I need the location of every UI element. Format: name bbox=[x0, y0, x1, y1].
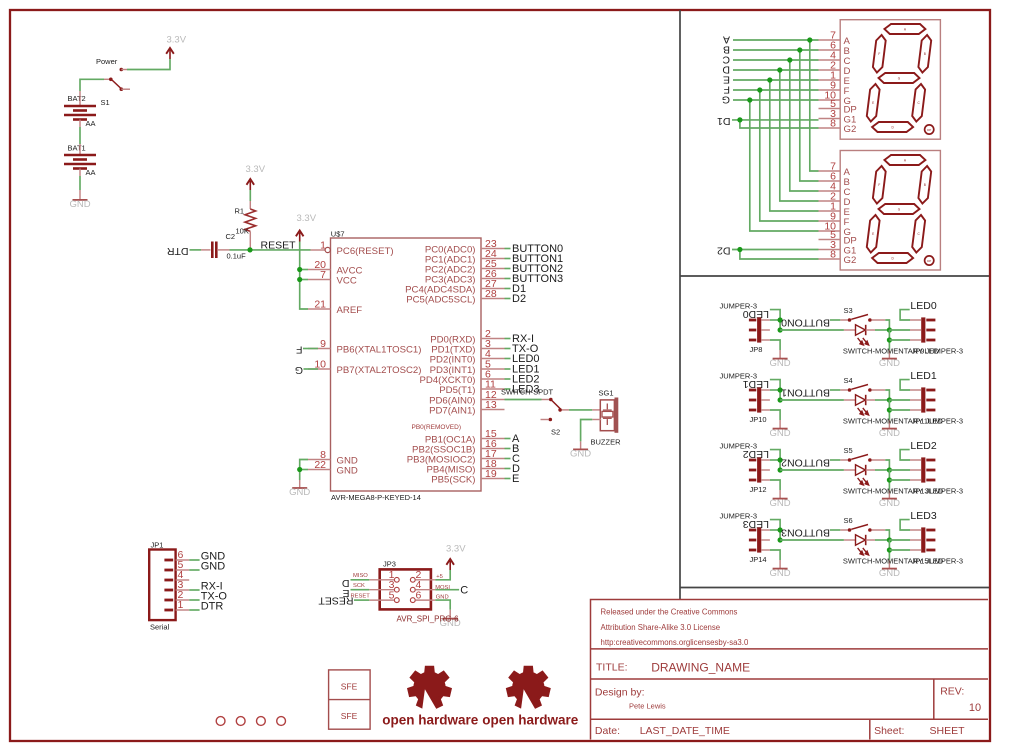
display D2 pin 1 E bbox=[819, 210, 841, 212]
svg-text:8: 8 bbox=[830, 249, 836, 261]
wire node to JP15 pin3 bbox=[889, 549, 910, 551]
svg-text:S6: S6 bbox=[844, 516, 853, 525]
svg-text:Released under the Creative Co: Released under the Creative Commons bbox=[601, 607, 738, 616]
svg-text:GND: GND bbox=[770, 428, 791, 439]
wire battery to switch bbox=[80, 79, 104, 91]
svg-text:GND: GND bbox=[201, 561, 226, 573]
fiducial circle 4 bbox=[277, 717, 286, 726]
wire net B to D1 bbox=[733, 49, 819, 51]
svg-text:B: B bbox=[924, 183, 926, 187]
junction JP10 pin2 bbox=[778, 397, 783, 402]
buzzer SG1 bbox=[600, 398, 616, 433]
display D1 pin 6 B bbox=[819, 49, 841, 51]
junction net F bbox=[757, 87, 762, 92]
wire net A branch to D2 bbox=[810, 40, 819, 171]
pin 12 PD6(AIN0) bbox=[481, 399, 505, 401]
svg-text:GND: GND bbox=[570, 449, 591, 460]
wire LED2 right to JP13 pin1 bbox=[900, 450, 910, 460]
svg-text:JUMPER-3: JUMPER-3 bbox=[926, 486, 964, 495]
wire E to JP3 pin3 bbox=[351, 589, 370, 591]
svg-text:DRAWING_NAME: DRAWING_NAME bbox=[651, 660, 750, 674]
wire node to JP13 pin2 bbox=[889, 469, 910, 471]
svg-text:GND: GND bbox=[879, 428, 900, 439]
svg-text:LED2: LED2 bbox=[743, 448, 769, 460]
wire switch to 3.3V bbox=[127, 59, 170, 70]
svg-text:E: E bbox=[872, 101, 874, 105]
svg-text:GND: GND bbox=[770, 498, 791, 509]
svg-text:13: 13 bbox=[485, 399, 497, 411]
pin 2 PD0(RXD) bbox=[481, 338, 505, 340]
ground symbol JP3 bbox=[443, 618, 458, 620]
svg-text:DP: DP bbox=[927, 259, 931, 263]
JP3 pin stubs right bbox=[415, 579, 435, 581]
junction JP12 pin1 bbox=[778, 457, 783, 462]
svg-text:S3: S3 bbox=[844, 306, 853, 315]
wire net F branch to D2 bbox=[760, 90, 819, 221]
connector JP1 pin 4 bbox=[164, 579, 173, 582]
svg-text:GND: GND bbox=[770, 568, 791, 579]
svg-text:SFE: SFE bbox=[341, 682, 358, 692]
svg-text:28: 28 bbox=[485, 288, 497, 300]
display D2 segment A bbox=[884, 155, 925, 165]
jumper JP15 bbox=[910, 527, 935, 552]
pin 4 PD2(INT0) bbox=[481, 358, 505, 360]
svg-text:G: G bbox=[295, 364, 303, 376]
svg-text:Attribution Share-Alike 3.0 Li: Attribution Share-Alike 3.0 License bbox=[601, 623, 721, 632]
wire S6 to LED cathode node bbox=[885, 530, 889, 540]
pin 16 PB2(SSOC1B) bbox=[481, 448, 505, 450]
supply symbol 3.3V arrow bbox=[166, 48, 174, 59]
ground symbol battery bbox=[73, 199, 88, 201]
junction node cathode 2 bbox=[887, 467, 892, 472]
display D1 decimal point bbox=[925, 125, 934, 134]
LED diode row 3 bbox=[844, 535, 875, 555]
wire LED0 net left bbox=[770, 310, 780, 330]
svg-text:BUZZER: BUZZER bbox=[591, 438, 622, 447]
pin 9 PB6(XTAL1TOSC1) bbox=[308, 348, 331, 350]
pin 22 GND bbox=[308, 469, 331, 471]
display D2 pin 7 A bbox=[819, 170, 841, 172]
connector JP3 pin 1 pad bbox=[394, 577, 399, 582]
svg-text:VCC: VCC bbox=[337, 275, 357, 286]
svg-text:AVR_SPI_PRG-6: AVR_SPI_PRG-6 bbox=[397, 615, 460, 624]
jumper JP9 bbox=[910, 317, 935, 342]
wire node to JP9 pin3 bbox=[889, 339, 910, 341]
display D2 pin 9 F bbox=[819, 220, 841, 222]
wire node to GND row 1 bbox=[888, 400, 890, 424]
svg-text:DP: DP bbox=[927, 128, 931, 132]
open hardware logo 2 gear bbox=[506, 666, 551, 711]
display D2 body bbox=[840, 151, 940, 271]
svg-text:LED0: LED0 bbox=[743, 308, 769, 320]
pin 18 PB4(MISO) bbox=[481, 468, 505, 470]
switch S5 bbox=[840, 455, 885, 462]
svg-text:GND: GND bbox=[879, 568, 900, 579]
supply symbol 3.3V arrow JP3 bbox=[446, 559, 454, 570]
pin 10 PB7(XTAL2TOSC2) bbox=[308, 368, 331, 370]
svg-text:JUMPER-3: JUMPER-3 bbox=[926, 346, 964, 355]
wire LED3 cathode to node bbox=[875, 539, 889, 541]
connector JP3 pin 6 pad bbox=[410, 598, 415, 603]
display D1 segment G bbox=[879, 73, 920, 83]
connector JP1 pin 1 bbox=[164, 609, 173, 612]
wire net D1 to G1 G2 bbox=[732, 119, 819, 121]
ground symbol JP8 bbox=[773, 358, 788, 360]
wire buzzer to GND bbox=[592, 419, 601, 421]
svg-text:Pete Lewis: Pete Lewis bbox=[629, 701, 666, 710]
pin 27 PC4(ADC4SDA) bbox=[481, 288, 505, 290]
wire BAT2 to BAT1 bbox=[79, 127, 81, 144]
svg-text:3.3V: 3.3V bbox=[297, 213, 317, 224]
jumper JP12 bbox=[749, 457, 770, 482]
wire S4 to LED cathode node bbox=[885, 390, 889, 400]
svg-text:B: B bbox=[924, 52, 926, 56]
wire net A to D1 bbox=[733, 39, 819, 41]
svg-text:E: E bbox=[872, 232, 874, 236]
wire net C branch to D2 bbox=[790, 60, 819, 191]
junction VCC bbox=[297, 277, 302, 282]
wire S5 left stub bbox=[830, 459, 840, 461]
junction node pin3 1 bbox=[887, 407, 892, 412]
battery BAT2 bbox=[64, 91, 96, 127]
wire trunk to AVCC bbox=[300, 269, 308, 271]
svg-text:BUTTON3: BUTTON3 bbox=[781, 526, 830, 538]
svg-text:SFE: SFE bbox=[341, 711, 358, 721]
switch S6 bbox=[840, 525, 885, 532]
svg-text:SG1: SG1 bbox=[599, 389, 614, 398]
wire LED1 net left bbox=[770, 380, 780, 400]
svg-text:GND: GND bbox=[879, 498, 900, 509]
pin 8 GND bbox=[308, 459, 331, 461]
svg-text:BAT1: BAT1 bbox=[68, 144, 86, 153]
wire JP1 pin 6 bbox=[189, 559, 199, 561]
wire net G to D1 bbox=[733, 99, 819, 101]
pin 11 PD5(T1) bbox=[481, 388, 505, 390]
svg-text:R1: R1 bbox=[235, 207, 245, 216]
display D1 pin 5 DP bbox=[819, 108, 841, 110]
wire DTR to C2 bbox=[190, 249, 202, 251]
wire S5 to LED cathode node bbox=[885, 460, 889, 470]
wire LED1 anode bbox=[780, 399, 844, 401]
wire LED0 cathode to node bbox=[875, 329, 889, 331]
svg-text:open hardware: open hardware bbox=[382, 713, 479, 728]
svg-text:PD2(INT0): PD2(INT0) bbox=[430, 354, 476, 365]
wire S3 to LED cathode node bbox=[885, 320, 889, 330]
svg-text:BUTTON1: BUTTON1 bbox=[781, 386, 830, 398]
svg-text:E: E bbox=[512, 473, 519, 485]
svg-text:3.3V: 3.3V bbox=[167, 35, 187, 46]
pin 13 PD7(AIN1) bbox=[481, 409, 505, 411]
svg-text:LED1: LED1 bbox=[910, 370, 936, 382]
pin 5 PD3(INT1) bbox=[481, 368, 505, 370]
wire LED2 anode bbox=[780, 469, 844, 471]
wire LED3 anode bbox=[780, 539, 844, 541]
svg-text:Sheet:: Sheet: bbox=[874, 725, 904, 737]
svg-text:BAT2: BAT2 bbox=[68, 94, 86, 103]
svg-text:GND: GND bbox=[289, 487, 310, 498]
wire JP10 pin3 to GND bbox=[770, 410, 780, 420]
ground symbol JP14 bbox=[773, 568, 788, 570]
svg-text:MISO: MISO bbox=[353, 573, 368, 579]
svg-text:AVR-MEGA8-P-KEYED-14: AVR-MEGA8-P-KEYED-14 bbox=[331, 493, 421, 502]
svg-text:PD7(AIN1): PD7(AIN1) bbox=[429, 405, 475, 416]
connector JP3 pin 4 pad bbox=[410, 587, 415, 592]
svg-text:REV:: REV: bbox=[940, 685, 964, 697]
pin 24 PC1(ADC1) bbox=[481, 258, 505, 260]
display D1 pin 7 A bbox=[819, 39, 841, 41]
svg-text:GND: GND bbox=[69, 199, 90, 210]
svg-text:LED0: LED0 bbox=[910, 300, 936, 312]
svg-text:D2: D2 bbox=[717, 245, 731, 257]
display D2 pin 8 G2 bbox=[819, 258, 841, 260]
wire net B branch to D2 bbox=[800, 50, 819, 181]
jumper JP8 bbox=[749, 317, 770, 342]
wire S4 left stub bbox=[830, 389, 840, 391]
junction JP14 pin1 bbox=[778, 527, 783, 532]
svg-text:GND: GND bbox=[337, 465, 358, 476]
junction net A bbox=[807, 37, 812, 42]
svg-text:GND: GND bbox=[879, 358, 900, 369]
wire node to JP9 pin2 bbox=[889, 329, 910, 331]
ground symbol JP10 bbox=[773, 428, 788, 430]
wire BAT1 to GND bbox=[79, 176, 81, 190]
display D1 segment C bbox=[912, 84, 925, 122]
svg-text:PC5(ADC5SCL): PC5(ADC5SCL) bbox=[406, 294, 475, 305]
section divider horizontal lower bbox=[680, 587, 989, 589]
wire RESET to JP3 pin5 bbox=[354, 599, 369, 601]
svg-text:SWITCH-SPDT: SWITCH-SPDT bbox=[501, 388, 553, 397]
pin 23 PC0(ADC0) bbox=[481, 248, 505, 250]
svg-text:+5: +5 bbox=[436, 574, 443, 580]
svg-text:BUTTON0: BUTTON0 bbox=[781, 316, 830, 328]
svg-text:PB0(REMOVED): PB0(REMOVED) bbox=[412, 424, 461, 431]
svg-text:LAST_DATE_TIME: LAST_DATE_TIME bbox=[640, 725, 730, 737]
supply symbol 3.3V arrow above MCU bbox=[296, 231, 304, 242]
svg-text:C2: C2 bbox=[226, 232, 236, 241]
jumper JP13 bbox=[910, 457, 935, 482]
wire net F to D1 bbox=[733, 89, 819, 91]
wire JP3 pin2 to 3.3V bbox=[435, 570, 450, 580]
wire JP1 pin 1 bbox=[189, 609, 199, 611]
svg-text:G2: G2 bbox=[844, 124, 857, 135]
junction node cathode 0 bbox=[887, 327, 892, 332]
connector JP1 pin 6 bbox=[164, 559, 173, 562]
section divider vertical bbox=[679, 10, 681, 600]
ground symbol JP12 bbox=[773, 498, 788, 500]
title block line under TITLE bbox=[591, 678, 989, 680]
wire F to PB6 bbox=[303, 348, 318, 350]
svg-text:PB7(XTAL2TOSC2): PB7(XTAL2TOSC2) bbox=[337, 365, 422, 376]
svg-text:LED1: LED1 bbox=[743, 378, 769, 390]
svg-text:PD5(T1): PD5(T1) bbox=[439, 385, 475, 396]
pin 20 AVCC bbox=[308, 269, 331, 271]
wire S6 left stub bbox=[830, 529, 840, 531]
pin 3 PD1(TXD) bbox=[481, 348, 505, 350]
wire node to JP11 pin2 bbox=[889, 399, 910, 401]
connector JP3 pin 3 pad bbox=[394, 587, 399, 592]
pin 7 VCC bbox=[308, 279, 331, 281]
SFE logo box bbox=[329, 670, 371, 729]
wire LED0 right to JP9 pin1 bbox=[900, 310, 910, 320]
wire JP1 pin 2 bbox=[189, 599, 199, 601]
svg-text:1: 1 bbox=[178, 599, 184, 611]
JP3 pin stubs left bbox=[369, 579, 394, 581]
svg-text:AA: AA bbox=[86, 168, 96, 177]
svg-text:C: C bbox=[460, 584, 468, 596]
ground symbol switch row 0 bbox=[882, 358, 897, 360]
wire node to JP15 pin2 bbox=[889, 539, 910, 541]
wire LED2 cathode to node bbox=[875, 469, 889, 471]
display D2 segment G bbox=[879, 204, 920, 214]
svg-text:S2: S2 bbox=[551, 428, 560, 437]
switch S3 bbox=[840, 315, 885, 322]
wire net D branch to D2 bbox=[780, 70, 819, 201]
display D2 pin 6 B bbox=[819, 180, 841, 182]
svg-text:D2: D2 bbox=[512, 293, 526, 305]
wire GND pins trunk bbox=[300, 460, 308, 481]
display D2 segment F bbox=[873, 166, 886, 204]
junction JP8 pin1 bbox=[778, 317, 783, 322]
svg-text:RESET: RESET bbox=[318, 594, 354, 606]
connector JP1 pin 2 bbox=[164, 599, 173, 602]
junction net D bbox=[777, 67, 782, 72]
svg-text:DTR: DTR bbox=[167, 245, 189, 257]
SFE logo box divider bbox=[329, 699, 371, 701]
fiducial circle 1 bbox=[216, 717, 225, 726]
capacitor C2 bbox=[201, 242, 230, 259]
svg-text:S5: S5 bbox=[844, 446, 853, 455]
svg-text:SCK: SCK bbox=[353, 583, 365, 589]
fiducial circle 2 bbox=[236, 717, 245, 726]
connector JP3 body bbox=[380, 569, 431, 609]
wire G to PB7 bbox=[304, 368, 319, 370]
ground symbol switch row 3 bbox=[882, 568, 897, 570]
svg-text:TITLE:: TITLE: bbox=[596, 661, 628, 673]
display D1 segment D bbox=[872, 122, 913, 132]
junction AVCC bbox=[297, 267, 302, 272]
IC U$7 AVR-MEGA8 body bbox=[331, 238, 482, 491]
junction JP12 pin2 bbox=[778, 467, 783, 472]
svg-text:7: 7 bbox=[320, 269, 326, 281]
display D1 body bbox=[840, 20, 940, 140]
svg-text:Date:: Date: bbox=[595, 725, 620, 737]
battery BAT1 bbox=[64, 144, 96, 176]
junction net B bbox=[797, 47, 802, 52]
wire C2 to MCU RESET bbox=[230, 249, 311, 251]
svg-text:21: 21 bbox=[314, 299, 326, 311]
display D2 pin 5 DP bbox=[819, 239, 841, 241]
wire LED1 right to JP11 pin1 bbox=[900, 380, 910, 390]
connector JP3 pin 2 pad bbox=[410, 577, 415, 582]
display D1 segment A bbox=[884, 24, 925, 34]
wire D to JP3 pin1 bbox=[351, 579, 370, 581]
wire net D to D1 bbox=[733, 69, 819, 71]
wire JP14 pin3 to GND bbox=[770, 550, 780, 560]
ground symbol MCU bbox=[292, 487, 307, 489]
svg-text:0.1uF: 0.1uF bbox=[227, 252, 247, 261]
display D2 segment B bbox=[918, 166, 931, 204]
resistor R1 bbox=[245, 201, 256, 250]
wire node to JP13 pin3 bbox=[889, 479, 910, 481]
title block REV divider bbox=[933, 679, 935, 719]
jumper JP14 bbox=[749, 527, 770, 552]
svg-text:G: G bbox=[722, 94, 730, 106]
svg-text:JUMPER-3: JUMPER-3 bbox=[926, 556, 964, 565]
wire LED2 net left bbox=[770, 450, 780, 470]
pin 15 PB1(OC1A) bbox=[481, 438, 505, 440]
display D2 pin 3 G1 bbox=[819, 249, 841, 251]
display D1 pin 9 F bbox=[819, 89, 841, 91]
junction JP8 pin2 bbox=[778, 327, 783, 332]
wire net G branch to D2 bbox=[750, 100, 819, 231]
junction net D1 bbox=[737, 117, 742, 122]
wire node to GND row 2 bbox=[888, 470, 890, 494]
svg-text:PB5(SCK): PB5(SCK) bbox=[431, 474, 475, 485]
svg-text:22: 22 bbox=[314, 459, 326, 471]
wire JP1 pin 5 bbox=[189, 569, 199, 571]
jumper JP11 bbox=[910, 387, 935, 412]
svg-text:GND: GND bbox=[770, 358, 791, 369]
title block line under Design bbox=[591, 718, 989, 720]
wire LED0 anode bbox=[780, 329, 844, 331]
section divider horizontal upper bbox=[680, 275, 989, 277]
display D1 segment E bbox=[867, 84, 880, 122]
wire S2 to buzzer bbox=[569, 409, 592, 411]
svg-text:Design by:: Design by: bbox=[595, 687, 645, 699]
LED diode row 2 bbox=[844, 465, 875, 485]
svg-text:JP3: JP3 bbox=[383, 560, 396, 569]
wire S3 left stub bbox=[830, 319, 840, 321]
wire node to GND row 3 bbox=[888, 540, 890, 564]
title block line under CC bbox=[591, 648, 989, 650]
title block Sheet divider bbox=[869, 719, 871, 739]
svg-text:DTR: DTR bbox=[201, 601, 224, 613]
svg-text:Power: Power bbox=[96, 57, 118, 66]
svg-text:19: 19 bbox=[485, 468, 497, 480]
svg-text:8: 8 bbox=[830, 118, 836, 130]
display D2 decimal point bbox=[925, 256, 934, 265]
junction node pin3 3 bbox=[887, 547, 892, 552]
junction JP10 pin1 bbox=[778, 387, 783, 392]
wire JP12 pin3 to GND bbox=[770, 480, 780, 490]
display D1 pin 4 C bbox=[819, 59, 841, 61]
svg-text:JP14: JP14 bbox=[750, 555, 767, 564]
svg-text:10: 10 bbox=[969, 702, 981, 714]
pin 19 PB5(SCK) bbox=[481, 478, 505, 480]
svg-text:F: F bbox=[878, 183, 880, 187]
pin 25 PC2(ADC2) bbox=[481, 268, 505, 270]
svg-text:JP1: JP1 bbox=[151, 541, 164, 550]
wire node to GND row 0 bbox=[888, 330, 890, 354]
switch S2 bbox=[541, 398, 570, 422]
connector JP1 pin 3 bbox=[164, 589, 173, 592]
display D2 segment E bbox=[867, 215, 880, 253]
svg-text:PC6(RESET): PC6(RESET) bbox=[337, 246, 394, 257]
svg-text:10K: 10K bbox=[236, 227, 249, 236]
wire net D2 to G1 G2 bbox=[732, 249, 819, 251]
junction net D2 bbox=[737, 247, 742, 252]
display D1 pin 8 G2 bbox=[819, 127, 841, 129]
svg-text:9: 9 bbox=[320, 338, 326, 350]
wire 3.3V trunk to AVCC VCC AREF bbox=[300, 242, 308, 310]
jumper JP10 bbox=[749, 387, 770, 412]
svg-text:Serial: Serial bbox=[150, 623, 170, 632]
junction net E bbox=[767, 77, 772, 82]
svg-text:LED3: LED3 bbox=[910, 510, 936, 522]
connector JP1 body bbox=[149, 550, 175, 621]
svg-text:JP12: JP12 bbox=[750, 485, 767, 494]
svg-text:3.3V: 3.3V bbox=[246, 164, 266, 175]
